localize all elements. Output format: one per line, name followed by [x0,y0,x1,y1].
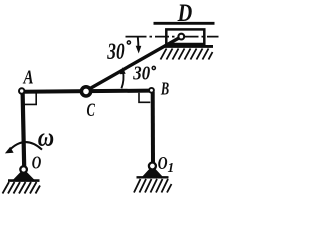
svg-text:C: C [87,101,96,121]
svg-text:30: 30 [106,40,124,65]
svg-text:30: 30 [132,62,150,85]
right-angle marker at A [24,93,37,105]
pin joint A [19,88,24,93]
guide hatching at D [161,49,213,60]
degree mark at D label [127,41,130,44]
svg-text:ω: ω [38,123,54,152]
pin joint B [149,88,154,93]
fixed support triangle at O1 [143,166,161,176]
link AB (horizontal bar) [22,91,151,92]
angle arc at C [121,72,123,89]
pivot pin O1 [149,163,156,170]
angle dimension arrow at D [137,37,140,48]
rod CD end segment inside slider [166,37,181,46]
svg-text:D: D [177,0,193,26]
omega arrow arc [9,142,42,150]
svg-text:1: 1 [168,160,175,175]
ground hatching at O [3,182,41,194]
pin joint D [178,34,184,40]
centerline through D [126,36,219,38]
ground line at O [8,179,40,182]
link O1B (vertical bar right) [151,92,155,164]
svg-text:O: O [158,154,168,173]
pin joint C [81,87,90,96]
ground line at O1 [137,176,169,178]
slider guide top rail [154,22,215,25]
fixed support triangle at O [14,170,33,180]
degree mark at C label [152,66,155,69]
pivot pin O [20,166,27,173]
svg-text:A: A [23,65,34,88]
right-angle marker at B [139,93,150,103]
ground hatching at O1 [134,179,172,193]
slider block D [166,29,204,44]
svg-text:O: O [32,154,42,173]
svg-text:B: B [160,79,169,99]
rod CD [87,37,182,91]
crank OA (vertical bar left) [23,92,25,168]
slider guide bottom rail [164,45,214,48]
